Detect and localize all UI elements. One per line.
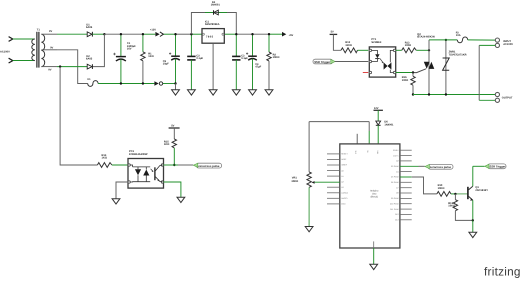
ground	[232, 90, 240, 95]
wire SSR trigger to PT1	[335, 61, 368, 63]
svg-text:A5/SCL: A5/SCL	[341, 197, 348, 200]
resistor R2	[267, 34, 280, 90]
svg-text:A0: A0	[341, 169, 343, 172]
fuse F2	[456, 31, 468, 42]
svg-text:10KΩ: 10KΩ	[438, 187, 445, 190]
Arduino left pins	[327, 154, 340, 204]
ground	[249, 90, 257, 95]
svg-text:9V: 9V	[49, 30, 52, 33]
svg-text:30KΩ: 30KΩ	[291, 180, 298, 183]
diode D6	[376, 121, 394, 144]
power 12V bar	[374, 107, 383, 121]
svg-text:S21ME3: S21ME3	[371, 41, 382, 44]
node	[445, 39, 447, 41]
svg-text:D11 PWM: D11 PWM	[390, 208, 399, 211]
svg-text:zerocross pulse: zerocross pulse	[198, 164, 220, 168]
svg-text:1KΩ: 1KΩ	[102, 157, 107, 160]
net label zerocross pulse	[193, 163, 221, 168]
capacitor C4	[246, 34, 262, 90]
diode D3 bypass	[191, 1, 236, 34]
resistor R16	[402, 73, 415, 95]
svg-text:AREF: AREF	[341, 158, 347, 161]
node	[268, 33, 270, 35]
wire to zerocross detector	[60, 67, 97, 165]
resistor R15	[164, 139, 177, 165]
svg-text:1KΩ: 1KΩ	[164, 143, 169, 146]
svg-text:16V: 16V	[127, 48, 132, 51]
node	[235, 33, 237, 35]
capacitor C5	[163, 34, 180, 83]
wire primary bottom	[13, 60, 35, 62]
node	[120, 82, 122, 84]
node	[454, 193, 456, 195]
svg-text:1N4001: 1N4001	[211, 4, 221, 7]
svg-text:D1/TX: D1/TX	[393, 154, 399, 157]
svg-text:100Ω: 100Ω	[402, 79, 408, 82]
node	[142, 82, 144, 84]
wire wiper to A2	[315, 181, 340, 183]
connector pair bottom rail	[154, 81, 162, 86]
svg-text:RESET: RESET	[341, 153, 348, 156]
ground	[469, 220, 477, 237]
svg-text:47µF: 47µF	[255, 66, 261, 69]
node	[190, 33, 192, 35]
wire PT1 to gate node	[396, 72, 413, 74]
svg-text:A2: A2	[341, 180, 343, 183]
svg-text:5V: 5V	[171, 125, 174, 128]
svg-text:D5 PWM: D5 PWM	[391, 176, 399, 179]
optocoupler PC1	[128, 150, 164, 188]
svg-text:D9 PWM: D9 PWM	[391, 197, 399, 200]
varistor ZNR1	[443, 40, 467, 95]
diode D1	[86, 23, 93, 36]
node	[120, 33, 122, 35]
svg-text:TSV07D271KR: TSV07D271KR	[449, 53, 467, 56]
optocoupler PT1	[369, 38, 396, 77]
svg-text:D0/RX: D0/RX	[393, 149, 399, 152]
wire R12 to PT1	[358, 49, 369, 51]
node	[412, 93, 414, 95]
svg-text:AC100V: AC100V	[0, 51, 10, 54]
microcontroller Arduino Uno	[340, 144, 400, 248]
svg-text:D8: D8	[396, 192, 398, 195]
node	[174, 82, 176, 84]
svg-text:A3: A3	[341, 186, 343, 189]
potentiometer VR1	[291, 122, 314, 227]
svg-text:2SC1815Y: 2SC1815Y	[475, 189, 488, 192]
svg-text:0V: 0V	[50, 47, 53, 50]
power 5V bar zerocross	[169, 125, 180, 139]
ground	[112, 199, 120, 204]
svg-text:+12V: +12V	[150, 28, 156, 31]
wire D2 to zerocross net label	[400, 165, 419, 167]
voltage regulator IC1	[202, 20, 224, 89]
node	[428, 93, 430, 95]
capacitor C1	[113, 34, 136, 83]
svg-text:VR1: VR1	[292, 176, 298, 179]
label +5V output	[282, 32, 294, 37]
svg-text:D12: D12	[395, 213, 398, 216]
svg-text:100Ω: 100Ω	[405, 44, 411, 47]
svg-text:10µF: 10µF	[163, 63, 169, 66]
resistor R13	[396, 41, 429, 52]
svg-text:1N4001: 1N4001	[384, 123, 394, 126]
node	[174, 33, 176, 35]
svg-text:9V: 9V	[48, 69, 51, 72]
svg-text:D13: D13	[395, 219, 398, 222]
svg-text:NJM7805FA: NJM7805FA	[205, 23, 220, 26]
svg-text:7805: 7805	[206, 35, 214, 38]
svg-text:A1: A1	[341, 175, 343, 178]
svg-text:D3 PWM: D3 PWM	[391, 165, 399, 168]
wire SSR bottom rail	[413, 94, 495, 96]
power 5V bar SSR	[330, 31, 341, 51]
connector INPUT AC100V	[495, 38, 513, 48]
transformer T1	[32, 29, 54, 72]
svg-text:6A05: 6A05	[86, 26, 93, 29]
svg-text:D4: D4	[396, 170, 398, 173]
svg-text:10A: 10A	[456, 34, 461, 37]
capacitor C2	[187, 34, 203, 90]
wire VR1 to 5V pin	[309, 121, 369, 123]
svg-text:+5V: +5V	[289, 34, 294, 37]
svg-text:BTA24-600CW: BTA24-600CW	[417, 36, 435, 39]
ground	[188, 90, 196, 95]
wire bottom tap	[41, 66, 57, 68]
connector OUTPUT	[495, 92, 513, 102]
net label SSR Trigger (arduino)	[485, 164, 507, 169]
resistor R11	[448, 194, 473, 221]
diode D2	[86, 55, 93, 69]
ground	[265, 90, 273, 95]
node	[142, 33, 144, 35]
wire red NC pin	[363, 72, 368, 74]
wire SSR top rail	[429, 39, 457, 41]
Arduino bottom ground pin	[373, 241, 375, 264]
wire PC1 left bottom to ground	[116, 182, 128, 199]
svg-text:10KΩ: 10KΩ	[273, 56, 280, 59]
svg-text:A4/SDA: A4/SDA	[341, 192, 348, 195]
ground	[209, 90, 217, 95]
svg-text:5V: 5V	[331, 31, 334, 34]
svg-text:6A05: 6A05	[86, 58, 93, 61]
svg-text:IOREF: IOREF	[341, 164, 348, 167]
svg-text:0.1µF: 0.1µF	[241, 57, 248, 60]
net label zerocross pulse (arduino)	[425, 164, 453, 169]
resistor R1	[141, 34, 154, 83]
svg-text:(Rev3): (Rev3)	[371, 195, 378, 198]
wire collector to SSR trigger	[473, 165, 485, 167]
wire mid tap	[41, 49, 57, 51]
resistor R14	[97, 154, 128, 168]
node junction bottom tap	[59, 65, 61, 67]
svg-text:GND: GND	[341, 203, 346, 206]
node	[445, 93, 447, 95]
wire D1 to junction	[92, 33, 104, 35]
wire fuse to input	[468, 39, 496, 41]
node	[428, 49, 430, 51]
wire input return	[479, 44, 495, 46]
connector +12V male female pair	[150, 28, 164, 36]
svg-text:D6 PWM: D6 PWM	[391, 181, 399, 184]
node	[173, 164, 175, 166]
svg-text:0.1µF: 0.1µF	[196, 57, 203, 60]
resistor R12	[341, 41, 358, 53]
triac Q2	[413, 33, 435, 95]
node	[412, 71, 414, 73]
svg-text:3V3: 3V3	[354, 151, 357, 154]
wire PC1 to net label	[164, 164, 179, 166]
fuse F1	[88, 78, 99, 86]
wire cathode column	[92, 34, 104, 66]
ground	[305, 227, 313, 232]
svg-text:zerocross pulse: zerocross pulse	[430, 165, 452, 169]
svg-text:OUTPUT: OUTPUT	[502, 97, 513, 100]
ground	[370, 264, 378, 269]
svg-text:D2: D2	[396, 160, 398, 163]
svg-text:D10 PWM: D10 PWM	[390, 202, 399, 205]
svg-text:fritzing: fritzing	[484, 264, 520, 278]
ground	[172, 84, 180, 96]
node	[251, 33, 253, 35]
capacitor C3	[232, 34, 248, 90]
wire bottom rail	[98, 83, 154, 85]
node junction D1 cathode	[103, 33, 105, 35]
wire PC1 right bottom to ground	[164, 182, 181, 197]
svg-text:FOD814A300W: FOD814A300W	[129, 153, 148, 156]
svg-text:SSR Trigger: SSR Trigger	[314, 60, 331, 64]
node	[472, 219, 474, 221]
wire top tap	[41, 33, 57, 35]
connector AC input terminals	[9, 37, 13, 63]
svg-text:1KΩ: 1KΩ	[148, 55, 153, 58]
wire D5 to R10	[400, 176, 412, 178]
Arduino right pins	[400, 150, 412, 220]
svg-text:SSR Trigger: SSR Trigger	[489, 165, 506, 169]
svg-text:AC100V: AC100V	[503, 43, 513, 46]
net label SSR Trigger	[313, 59, 335, 64]
transistor Q1	[468, 166, 488, 220]
resistor R10	[437, 184, 467, 196]
svg-text:D7: D7	[396, 186, 398, 189]
wire NC stub	[356, 134, 358, 144]
svg-text:330Ω: 330Ω	[345, 44, 351, 47]
wire top rail	[104, 33, 142, 35]
ground	[177, 197, 185, 202]
wire primary top	[13, 38, 35, 40]
